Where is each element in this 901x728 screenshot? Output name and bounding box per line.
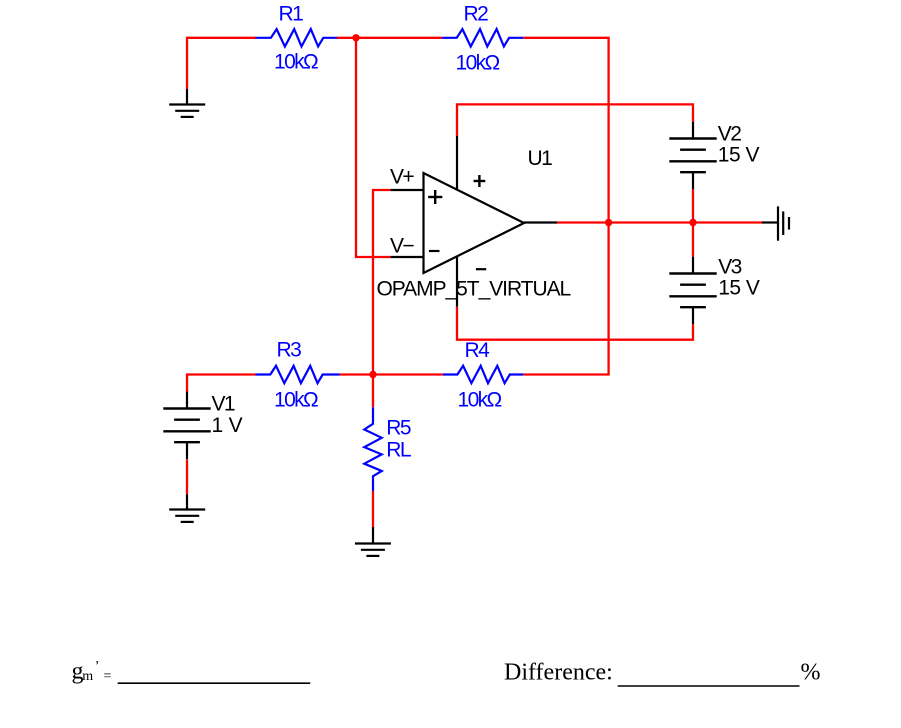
wire: V1 minus to ground [186,460,188,495]
ground right, rotated [778,206,789,240]
svg-text:1 V: 1 V [212,414,243,437]
ground top-left [169,105,205,117]
node A (R1/R2 junction) [352,34,359,41]
svg-text:Difference:: Difference: [504,659,613,685]
svg-text:V+: V+ [390,166,414,189]
svg-text:OPAMP_5T_VIRTUAL: OPAMP_5T_VIRTUAL [377,277,571,300]
wire: R1 right lead to node A [337,37,356,39]
op-amp U1 [377,147,571,300]
svg-text:R5: R5 [386,417,411,440]
svg-text:V3: V3 [718,255,741,278]
svg-text:R2: R2 [464,3,489,26]
svg-text:%: % [801,659,821,685]
wire: R5 ground lead [372,527,374,544]
wire: negative supply rail, bottom [457,307,693,340]
wire: op-amp bottom supply pin [456,257,458,307]
resistor R2 [442,3,524,75]
svg-text:m: m [82,669,93,684]
wire: V- input pin [391,256,424,258]
label Difference: blank % [504,659,821,686]
node B (R3/R4/R5 junction) [369,371,376,378]
wire: black lead top-left ground [186,89,188,105]
wire: V2 minus to V3 plus [692,189,694,256]
wire: V+ input pin [391,189,424,191]
wire: op-amp output to ground lead [557,221,762,223]
svg-text:R3: R3 [277,339,302,362]
node: supply midpoint junction [689,219,696,226]
resistor R4 [443,339,523,412]
battery V3 15V [669,255,760,324]
label gm' = blank [72,659,311,685]
wire: positive supply rail, top [457,104,693,136]
resistor R3 [256,339,340,412]
wire: V1 plus to R3 left lead [187,375,256,393]
svg-text:RL: RL [386,439,411,462]
wire: node A to R2 left lead [356,37,442,39]
wire: R3 right lead to node B [340,373,374,375]
svg-text:10kΩ: 10kΩ [456,52,500,75]
resistor R1 [256,3,338,74]
svg-text:R1: R1 [279,3,304,26]
svg-text:15 V: 15 V [718,143,760,166]
svg-text:=: = [104,669,112,684]
svg-text:15 V: 15 V [718,277,760,300]
wire: V1 bottom ground lead [186,494,188,509]
wire: node B down to R5 [372,375,374,408]
svg-text:V1: V1 [212,392,235,415]
wire: op-amp top supply pin [456,136,458,190]
svg-text:10kΩ: 10kΩ [274,51,318,74]
wire: ground stub to R1 left, top-left corner [187,38,256,89]
wire: R5 bottom lead to ground [372,491,374,527]
ground under R5 [355,544,391,556]
wire: V+ input left and down to node B [373,190,391,375]
svg-text:V2: V2 [718,122,741,145]
wire: R2 right lead, corner down right vertical rail to R4 right lead [523,38,608,375]
svg-text:10kΩ: 10kΩ [274,389,318,412]
resistor R5 [364,407,411,491]
battery V2 15V [669,122,759,190]
svg-text:R4: R4 [465,339,491,362]
svg-text:’: ’ [95,659,100,674]
wire: node B to R4 left lead [373,373,443,375]
svg-text:10kΩ: 10kΩ [458,389,502,412]
battery V1 1V [163,392,242,460]
wire: node A down to V- input [356,38,391,257]
wire: lead to right ground [762,221,778,223]
node: output junction [605,219,612,226]
wire: op-amp output pin [524,221,557,223]
svg-text:V−: V− [390,235,414,258]
ground under V1 [169,510,205,522]
svg-text:U1: U1 [528,147,553,170]
